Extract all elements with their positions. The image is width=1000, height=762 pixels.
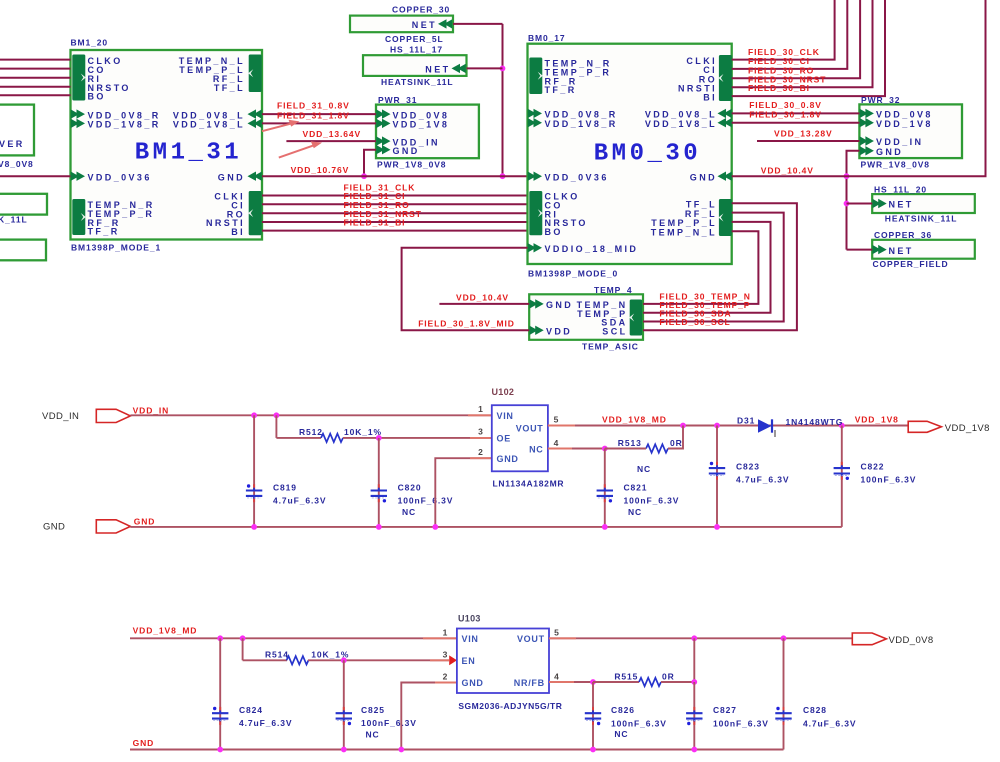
wire VDD_1V8_MD bbox=[548, 425, 908, 427]
wire FIELD_30_CLK bbox=[732, 0, 835, 60]
svg-text:VDD_1V8: VDD_1V8 bbox=[876, 119, 933, 129]
pin VDD_0V8_R (BM1_31) bbox=[88, 110, 161, 120]
junction bbox=[376, 524, 382, 530]
wire bbox=[343, 437, 492, 439]
svg-text:0R: 0R bbox=[670, 438, 683, 448]
pin NRSTO (BM0_30) bbox=[545, 218, 588, 228]
wire bbox=[243, 638, 287, 660]
wire bbox=[693, 638, 695, 682]
pin number 5 bbox=[554, 415, 560, 425]
regulator U103 bbox=[457, 629, 549, 694]
pin CLKI (BM0_30) bbox=[686, 56, 717, 66]
pin BO (BM1_31) bbox=[88, 92, 106, 102]
pin stub bbox=[548, 448, 572, 450]
svg-text:FIELD_30_1.8V_MID: FIELD_30_1.8V_MID bbox=[418, 319, 515, 329]
svg-text:VDD: VDD bbox=[546, 327, 572, 337]
wire bbox=[276, 415, 321, 438]
junction bbox=[500, 173, 506, 179]
wire VDD_0V8 out bbox=[549, 637, 852, 639]
svg-text:VDD_10.4V: VDD_10.4V bbox=[761, 165, 814, 175]
capacitor C825 bbox=[336, 660, 352, 749]
svg-text:HEATSINK_11L: HEATSINK_11L bbox=[885, 214, 958, 224]
label V8_0V8 (partial) bbox=[0, 159, 34, 169]
wire bbox=[847, 151, 860, 250]
pin group tab bbox=[629, 300, 642, 336]
svg-text:U103: U103 bbox=[458, 613, 481, 623]
label NC bbox=[402, 507, 416, 517]
wire bbox=[0, 68, 71, 70]
svg-text:V8_0V8: V8_0V8 bbox=[0, 159, 34, 169]
wire bbox=[0, 94, 71, 96]
net label VDD_1V8_MD bbox=[602, 414, 667, 424]
pin group tab bbox=[528, 109, 542, 128]
pin number 4 bbox=[554, 438, 560, 448]
net label VDD_10.4V bbox=[761, 165, 814, 175]
pin VDD (TEMP_4) bbox=[529, 326, 572, 337]
junction bbox=[274, 412, 280, 418]
pin number 1 bbox=[478, 404, 484, 414]
label R512 bbox=[299, 427, 323, 437]
svg-text:100nF_6.3V: 100nF_6.3V bbox=[611, 719, 667, 729]
svg-text:BM1398P_MODE_1: BM1398P_MODE_1 bbox=[71, 243, 161, 253]
port GND bbox=[96, 520, 130, 533]
wire VDD_13.28V bbox=[757, 140, 859, 142]
pin RF_L (BM1_31) bbox=[213, 74, 245, 84]
pin group tab bbox=[376, 109, 390, 128]
svg-text:NR/FB: NR/FB bbox=[514, 678, 545, 688]
resistor R513 bbox=[646, 444, 668, 452]
junction bbox=[691, 635, 697, 641]
svg-text:VDD_IN: VDD_IN bbox=[42, 411, 79, 422]
pin GND (BM1_31) bbox=[218, 172, 262, 183]
pin TF_R (BM1_31) bbox=[88, 227, 120, 237]
svg-text:U102: U102 bbox=[492, 387, 515, 397]
svg-text:FIELD_31_1.8V: FIELD_31_1.8V bbox=[277, 110, 350, 120]
svg-text:VDD_0V36: VDD_0V36 bbox=[545, 172, 609, 182]
net label VDD_1V8 bbox=[855, 415, 899, 425]
pin GND (PWR_31) bbox=[376, 145, 420, 156]
junction bbox=[691, 679, 697, 685]
pin VDD_1V8_R (BM0_30) bbox=[545, 119, 618, 129]
svg-text:C822: C822 bbox=[861, 462, 885, 472]
pin TEMP_N_L (BM0_30) bbox=[651, 227, 717, 237]
label C828 bbox=[803, 705, 827, 715]
pin group tab bbox=[248, 55, 262, 93]
sheet symbol HS_11L_20 bbox=[872, 194, 975, 213]
pin GND (TEMP_4) bbox=[529, 299, 573, 310]
pin VDD_0V36 (BM1_31) bbox=[71, 172, 152, 183]
svg-text:HS_11L_17: HS_11L_17 bbox=[390, 45, 443, 55]
svg-text:BM1_31: BM1_31 bbox=[135, 140, 242, 167]
junction bbox=[398, 747, 404, 753]
designator label HS_11L_17 bbox=[390, 45, 443, 55]
junction bbox=[361, 173, 367, 179]
pin stub bbox=[468, 414, 492, 416]
pin name NR/FB bbox=[514, 678, 545, 688]
pin NRSTI (BM1_31) bbox=[206, 218, 245, 228]
net label VDD_1V8_MD bbox=[133, 626, 198, 636]
svg-text:BO: BO bbox=[88, 92, 106, 102]
label C825 bbox=[361, 705, 385, 715]
svg-text:PWR_1V8_0V8: PWR_1V8_0V8 bbox=[861, 159, 930, 169]
part number 1N4148WTG bbox=[786, 417, 844, 427]
junction bbox=[844, 173, 850, 179]
title BM1_31 bbox=[135, 140, 242, 167]
label C822 bbox=[861, 462, 885, 472]
svg-text:R512: R512 bbox=[299, 427, 323, 437]
svg-text:R515: R515 bbox=[614, 671, 638, 681]
pin BI (BM0_30) bbox=[703, 92, 717, 102]
svg-text:VDD_1V8: VDD_1V8 bbox=[855, 415, 899, 425]
net label FIELD_30_TEMP_P bbox=[659, 300, 750, 310]
pin stub bbox=[470, 437, 492, 439]
svg-text:NC: NC bbox=[366, 730, 380, 740]
wire FIELD_30_0.8V bbox=[732, 112, 860, 114]
designator label BM1_20 bbox=[71, 38, 109, 48]
capacitor C821 bbox=[597, 449, 613, 527]
pin TEMP_P (TEMP_4) bbox=[577, 309, 627, 319]
label C823 bbox=[736, 462, 760, 472]
wire FIELD_30_1.8V_MID bbox=[402, 248, 530, 330]
svg-text:TF_R: TF_R bbox=[88, 227, 120, 237]
capacitor C828 bbox=[775, 638, 791, 749]
net label VDD_10.76V bbox=[291, 165, 350, 175]
wire FIELD_31_CLK bbox=[262, 195, 528, 197]
svg-text:0R: 0R bbox=[662, 671, 675, 681]
svg-text:VOUT: VOUT bbox=[517, 634, 545, 644]
value 100nF_6.3V bbox=[861, 475, 917, 485]
pin number 5 bbox=[554, 627, 560, 637]
svg-text:VDD_1V8_R: VDD_1V8_R bbox=[88, 120, 161, 130]
sheet file label PWR_1V8_0V8 bbox=[861, 159, 930, 169]
designator label PWR_32 bbox=[861, 95, 900, 105]
pin VDD_0V8_R (BM0_30) bbox=[545, 110, 618, 120]
svg-text:3: 3 bbox=[478, 427, 484, 437]
regulator U102 bbox=[492, 405, 548, 471]
pin NET (HS_11L_20) bbox=[872, 199, 913, 210]
svg-text:VDD_1V8: VDD_1V8 bbox=[393, 120, 450, 130]
svg-text:VER: VER bbox=[0, 139, 25, 149]
svg-text:TF_R: TF_R bbox=[545, 85, 577, 95]
wire FIELD_30_TEMP_P bbox=[643, 222, 771, 313]
pin TEMP_P_L (BM0_30) bbox=[651, 218, 717, 228]
pin TF_L (BM1_31) bbox=[214, 83, 245, 93]
svg-text:TEMP_ASIC: TEMP_ASIC bbox=[582, 342, 639, 352]
svg-text:C819: C819 bbox=[273, 482, 297, 492]
sheet symbol PWR_32 bbox=[859, 104, 962, 158]
sheet symbol COPPER_30 bbox=[350, 16, 453, 33]
junction bbox=[341, 657, 347, 663]
pin group tab bbox=[718, 55, 732, 101]
svg-text:TF_L: TF_L bbox=[214, 83, 245, 93]
wire FIELD_31_1.8V bbox=[262, 122, 376, 124]
net label FIELD_31_1.8V bbox=[277, 110, 350, 120]
svg-text:C825: C825 bbox=[361, 705, 385, 715]
label NC bbox=[637, 464, 651, 474]
svg-text:4: 4 bbox=[554, 438, 560, 448]
pin group tab bbox=[718, 199, 732, 236]
net label FIELD_31_BI bbox=[344, 218, 406, 228]
pin TEMP_N_R (BM1_31) bbox=[88, 200, 155, 210]
svg-text:GND: GND bbox=[134, 516, 156, 526]
partial sheet symbol (left edge bottom) bbox=[0, 240, 46, 261]
svg-text:NC: NC bbox=[614, 729, 628, 739]
label NC bbox=[366, 730, 380, 740]
wire FIELD_31_RO bbox=[262, 212, 528, 214]
svg-text:NC: NC bbox=[628, 507, 642, 517]
svg-text:1: 1 bbox=[443, 627, 449, 637]
svg-text:PWR_32: PWR_32 bbox=[861, 95, 900, 105]
net label FIELD_31_NRST bbox=[344, 209, 422, 219]
wire bbox=[847, 249, 873, 251]
pin name GND bbox=[497, 454, 519, 464]
wire bbox=[548, 448, 605, 450]
svg-text:PWR_31: PWR_31 bbox=[378, 95, 417, 105]
pin RI (BM1_31) bbox=[88, 74, 102, 84]
svg-text:HEATSINK_11L: HEATSINK_11L bbox=[381, 77, 454, 87]
junction bbox=[714, 524, 720, 530]
svg-text:BM1_20: BM1_20 bbox=[71, 38, 109, 48]
partial sheet symbol POWER (left edge) bbox=[0, 105, 34, 156]
svg-text:4.7uF_6.3V: 4.7uF_6.3V bbox=[803, 719, 856, 729]
svg-text:1N4148WTG: 1N4148WTG bbox=[786, 417, 844, 427]
net label FIELD_30_BI bbox=[748, 83, 810, 93]
svg-text:BM1398P_MODE_0: BM1398P_MODE_0 bbox=[528, 269, 618, 279]
label R514 bbox=[265, 649, 289, 659]
annotation arrow bbox=[279, 141, 322, 157]
svg-text:D31: D31 bbox=[737, 415, 755, 425]
svg-text:100nF_6.3V: 100nF_6.3V bbox=[398, 495, 454, 505]
svg-text:FIELD_31_BI: FIELD_31_BI bbox=[344, 218, 406, 228]
wire bbox=[593, 681, 639, 683]
wire VDD_13.64V bbox=[286, 140, 376, 142]
svg-text:1: 1 bbox=[478, 404, 484, 414]
wire FIELD_31_CI bbox=[262, 203, 528, 205]
svg-text:LN1134A182MR: LN1134A182MR bbox=[493, 478, 565, 488]
designator label PWR_31 bbox=[378, 95, 417, 105]
port VDD_0V8 bbox=[852, 633, 886, 645]
pin SDA (TEMP_4) bbox=[601, 318, 627, 328]
pin group tab bbox=[248, 191, 262, 235]
svg-text:R514: R514 bbox=[265, 649, 289, 659]
svg-text:FIELD_31_0.8V: FIELD_31_0.8V bbox=[277, 100, 350, 110]
pin group tab bbox=[529, 191, 543, 235]
svg-text:FIELD_30_1.8V: FIELD_30_1.8V bbox=[749, 109, 822, 119]
wire FIELD_31_NRST bbox=[262, 221, 528, 223]
svg-text:TEMP_N_L: TEMP_N_L bbox=[651, 227, 717, 237]
svg-text:BI: BI bbox=[703, 92, 717, 102]
pin VDDIO_18_MID (BM0_30) bbox=[528, 243, 639, 254]
svg-text:BM0_17: BM0_17 bbox=[528, 33, 566, 43]
svg-text:NET: NET bbox=[889, 246, 914, 256]
part number SGM2036-ADJYN5G/TR bbox=[458, 701, 562, 711]
label C819 bbox=[273, 482, 297, 492]
designator U103 bbox=[458, 613, 481, 623]
svg-text:VDD_1V8: VDD_1V8 bbox=[945, 423, 990, 434]
sheet symbol BM1_31 bbox=[71, 50, 263, 240]
svg-text:VIN: VIN bbox=[462, 634, 479, 644]
svg-text:NC: NC bbox=[402, 507, 416, 517]
pin arrow EN bbox=[449, 655, 457, 665]
sheet symbol TEMP_4 bbox=[529, 294, 643, 340]
pin RO (BM0_30) bbox=[699, 75, 717, 85]
svg-text:SGM2036-ADJYN5G/TR: SGM2036-ADJYN5G/TR bbox=[458, 701, 562, 711]
net label FIELD_30_NRST bbox=[748, 74, 826, 84]
svg-text:2: 2 bbox=[443, 672, 449, 682]
value 100nF_6.3V bbox=[713, 719, 769, 729]
designator label BM0_17 bbox=[528, 33, 566, 43]
svg-text:EN: EN bbox=[462, 656, 476, 666]
svg-text:TEMP_4: TEMP_4 bbox=[594, 285, 632, 295]
net label GND bbox=[134, 516, 156, 526]
net label VDD_13.28V bbox=[774, 128, 833, 138]
port name VDD_IN bbox=[42, 411, 79, 422]
value 0R bbox=[670, 438, 683, 448]
pin VDD_1V8_L (BM1_31) bbox=[173, 119, 262, 130]
junction bbox=[500, 66, 506, 72]
port name GND bbox=[43, 522, 65, 533]
svg-text:COPPER_5L: COPPER_5L bbox=[385, 34, 444, 44]
label C826 bbox=[611, 705, 635, 715]
pin TEMP_P_L (BM1_31) bbox=[179, 65, 245, 75]
part number LN1134A182MR bbox=[493, 478, 565, 488]
svg-text:100nF_6.3V: 100nF_6.3V bbox=[861, 475, 917, 485]
junction bbox=[714, 423, 720, 429]
pin VDD_0V8_L (BM0_30) bbox=[645, 109, 732, 120]
net label VDD_10.4V bbox=[456, 292, 509, 302]
net label FIELD_30_1.8V bbox=[749, 109, 822, 119]
svg-text:COPPER_36: COPPER_36 bbox=[874, 230, 932, 240]
pin TEMP_P_R (BM1_31) bbox=[88, 209, 155, 219]
pin NRSTI (BM0_30) bbox=[678, 84, 717, 94]
pin number 4 bbox=[554, 672, 560, 682]
svg-text:BO: BO bbox=[545, 227, 563, 237]
annotation arrow bbox=[262, 120, 300, 131]
net label FIELD_30_1.8V_MID bbox=[418, 319, 515, 329]
pin name OE bbox=[497, 434, 511, 444]
pin VDD_1V8 (PWR_31) bbox=[393, 120, 450, 130]
pin name EN bbox=[462, 656, 476, 666]
svg-text:VDD_1V8_MD: VDD_1V8_MD bbox=[133, 626, 198, 636]
pin VDD_1V8 (PWR_32) bbox=[876, 119, 933, 129]
pin VDD_0V8 (PWR_31) bbox=[393, 110, 450, 120]
label C821 bbox=[624, 482, 648, 492]
svg-text:C820: C820 bbox=[398, 482, 422, 492]
svg-text:VDD_1V8_L: VDD_1V8_L bbox=[173, 120, 245, 130]
pin CO (BM1_31) bbox=[88, 65, 106, 75]
svg-text:PWR_1V8_0V8: PWR_1V8_0V8 bbox=[377, 159, 446, 169]
junction bbox=[251, 524, 257, 530]
wire FIELD_30_RO bbox=[732, 0, 860, 78]
net label FIELD_30_SDA bbox=[659, 309, 731, 319]
svg-text:K_11L: K_11L bbox=[0, 215, 28, 225]
pin stub bbox=[470, 457, 492, 459]
wire GND rail bbox=[130, 749, 784, 751]
pin group tab bbox=[529, 58, 543, 95]
net label FIELD_31_0.8V bbox=[277, 100, 350, 110]
pin TEMP_N (TEMP_4) bbox=[577, 300, 628, 310]
wire bbox=[467, 67, 503, 69]
svg-text:GND: GND bbox=[43, 522, 65, 533]
designator label COPPER_30 bbox=[392, 5, 450, 15]
pin VDD_0V8_L (BM1_31) bbox=[173, 109, 262, 120]
wire bbox=[308, 659, 449, 661]
svg-text:VDD_1V8_R: VDD_1V8_R bbox=[545, 119, 618, 129]
svg-text:NET: NET bbox=[412, 20, 437, 30]
junction bbox=[590, 679, 596, 685]
pin VDD_IN (PWR_32) bbox=[860, 136, 924, 147]
pin RO (BM1_31) bbox=[227, 209, 245, 219]
wire GND rail bbox=[130, 526, 841, 528]
net label FIELD_30_CI bbox=[748, 56, 810, 66]
title BM0_30 bbox=[594, 140, 701, 167]
svg-text:100nF_6.3V: 100nF_6.3V bbox=[713, 719, 769, 729]
value 100nF_6.3V bbox=[361, 718, 417, 728]
svg-text:VDDIO_18_MID: VDDIO_18_MID bbox=[545, 244, 639, 254]
diode D31 bbox=[758, 419, 775, 437]
wire bbox=[605, 448, 646, 450]
wire bbox=[0, 175, 71, 177]
svg-text:FIELD_30_BI: FIELD_30_BI bbox=[748, 83, 810, 93]
pin group tab bbox=[72, 55, 86, 101]
sheet file label COPPER_FIELD bbox=[873, 259, 949, 269]
svg-text:VDD_IN: VDD_IN bbox=[133, 406, 170, 416]
value 4.7uF_6.3V bbox=[273, 495, 326, 505]
sheet file label PWR_1V8_0V8 bbox=[377, 159, 446, 169]
junction bbox=[240, 635, 246, 641]
pin stub bbox=[549, 637, 576, 639]
pin VER (partial) bbox=[0, 139, 25, 149]
pin GND (PWR_32) bbox=[860, 146, 904, 157]
svg-text:C826: C826 bbox=[611, 705, 635, 715]
svg-text:NET: NET bbox=[889, 200, 914, 210]
junction bbox=[602, 446, 608, 452]
label R513 bbox=[618, 438, 642, 448]
value 10K_1% bbox=[344, 427, 382, 437]
sheet file label HEATSINK_11L bbox=[885, 214, 958, 224]
net label FIELD_31_CI bbox=[344, 191, 406, 201]
svg-text:VDD_0V8: VDD_0V8 bbox=[889, 635, 934, 646]
pin NET (COPPER_30) bbox=[412, 19, 453, 30]
port name VDD_0V8 bbox=[889, 635, 934, 646]
pin stub bbox=[435, 682, 457, 684]
wire bbox=[364, 150, 376, 177]
sheet symbol PWR_31 bbox=[376, 105, 479, 159]
pin RF_R (BM0_30) bbox=[545, 76, 578, 86]
junction bbox=[251, 412, 257, 418]
capacitor C823 bbox=[709, 426, 725, 527]
sheet symbol HS_11L_17 bbox=[363, 55, 467, 76]
pin TEMP_N_R (BM0_30) bbox=[545, 59, 612, 69]
pin CLKO (BM0_30) bbox=[545, 192, 580, 202]
svg-text:VDD_13.64V: VDD_13.64V bbox=[303, 129, 362, 139]
net label VDD_IN bbox=[133, 406, 170, 416]
designator label TEMP_4 bbox=[594, 285, 632, 295]
pin CLKO (BM1_31) bbox=[88, 56, 123, 66]
wire bbox=[549, 681, 593, 683]
svg-text:NET: NET bbox=[425, 65, 450, 75]
svg-text:VOUT: VOUT bbox=[516, 424, 544, 434]
pin group tab bbox=[860, 109, 874, 128]
svg-text:GND: GND bbox=[393, 146, 420, 156]
pin number 3 bbox=[478, 427, 484, 437]
junction bbox=[341, 747, 347, 753]
value 100nF_6.3V bbox=[398, 495, 454, 505]
svg-text:4.7uF_6.3V: 4.7uF_6.3V bbox=[273, 495, 326, 505]
wire VDD_10.4V bbox=[732, 0, 986, 176]
partial sheet symbol HEATSINK (left edge) bbox=[0, 194, 47, 215]
pin name VOUT bbox=[517, 634, 545, 644]
